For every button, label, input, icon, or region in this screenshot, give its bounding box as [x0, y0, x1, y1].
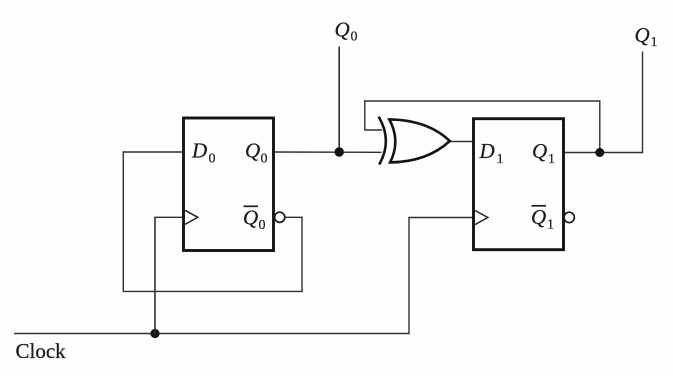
svg-text:Q: Q: [245, 139, 260, 163]
label D1 (U2 data input): [479, 139, 504, 167]
svg-text:0: 0: [259, 218, 266, 233]
label D0 (U1 data input): [191, 139, 216, 167]
svg-text:Q: Q: [335, 18, 350, 42]
svg-text:1: 1: [548, 152, 555, 167]
wire: Q1 output horizontal: [564, 152, 643, 154]
svg-text:0: 0: [351, 30, 358, 45]
bubble U1 Q0-bar output: [275, 212, 285, 222]
wire: D0 input horizontal (feedback to D0): [123, 151, 184, 153]
svg-text:D: D: [191, 139, 207, 163]
wire: left clock vertical: [154, 217, 156, 333]
wire: right clock vertical: [408, 218, 410, 335]
wire: feedback bottom horizontal: [123, 290, 303, 292]
node: junction dot on Q0 line: [335, 147, 344, 156]
wire: vertical from top feedback down to Q1 node: [599, 100, 601, 152]
clock triangle U2: [475, 211, 488, 225]
label Q0 (top net name): [335, 18, 358, 45]
svg-text:1: 1: [547, 218, 554, 233]
svg-text:Q: Q: [243, 206, 258, 230]
wire: clock bottom horizontal: [14, 333, 410, 335]
svg-text:Q: Q: [531, 205, 546, 229]
wire: Q0 output to XOR lower input: [274, 151, 382, 153]
svg-text:1: 1: [497, 152, 504, 167]
label Clock (bottom net name): [16, 339, 67, 363]
svg-text:D: D: [479, 139, 495, 163]
label Q0 (U1 Q output): [245, 139, 268, 167]
label Q1-bar (U2 Q-bar output): [531, 205, 554, 233]
node: junction dot on clock line: [150, 329, 159, 338]
wire: Q0-bar bubble to feedback corner: [285, 216, 303, 218]
flip-flop U2 box (right D flip-flop): [474, 119, 564, 250]
wire: XOR output to D1 input: [450, 141, 474, 143]
label Q1 (U2 Q output): [532, 139, 555, 167]
svg-text:0: 0: [209, 152, 216, 167]
label Q1 (top-right net name): [635, 23, 658, 50]
svg-text:Q: Q: [532, 139, 547, 163]
wire: right clock horizontal into U2: [408, 217, 473, 219]
wire: XOR upper input vertical: [364, 100, 366, 130]
wire: Q0 vertical riser to top label: [338, 47, 340, 153]
wire: left clock horizontal into U1: [154, 216, 183, 218]
wire: Q1 vertical riser to top label: [642, 52, 644, 154]
wire: feedback left vertical: [122, 151, 124, 291]
wire: XOR upper input stub: [365, 129, 382, 131]
svg-text:Clock: Clock: [16, 339, 67, 363]
svg-text:0: 0: [261, 152, 268, 167]
label Q0-bar (U1 Q-bar output): [243, 206, 266, 234]
clock triangle U1: [185, 210, 198, 224]
flip-flop U1 box (left D flip-flop): [184, 118, 274, 251]
wire: feedback right vertical (from Q0-bar bubble down): [301, 217, 303, 293]
svg-text:1: 1: [651, 35, 658, 50]
svg-text:Q: Q: [635, 23, 650, 47]
node: junction dot on Q1 line: [595, 148, 604, 157]
bubble U2 Q1-bar output: [564, 212, 574, 222]
wire: top feedback horizontal from Q1: [364, 100, 600, 102]
XOR gate G1: [379, 117, 450, 165]
